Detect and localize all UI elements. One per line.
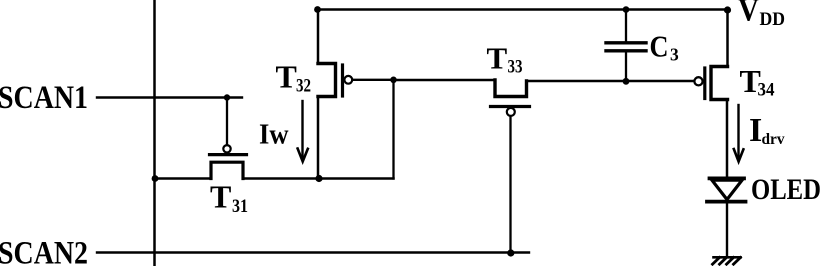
label T31 — [210, 179, 248, 218]
transistor T34 (p-type, vertical, gate bubble left) — [694, 67, 727, 100]
wire: bus to T31 source — [155, 177, 212, 179]
svg-text:3: 3 — [670, 45, 679, 65]
current arrow Idrv — [734, 105, 744, 162]
node VDD (supply dot) — [724, 6, 731, 13]
junction: T32 gate/drain tie node — [390, 77, 397, 84]
transistor T31 (p-type, gate bubble) — [210, 145, 247, 178]
wire: C3 top lead — [625, 10, 627, 42]
junction: bus / storage node row — [152, 175, 159, 182]
wire: T34 source down to OLED anode — [726, 100, 729, 177]
wire: T33 gate lead down to SCAN2 — [509, 116, 511, 252]
svg-text:I: I — [749, 112, 762, 149]
wire: T31 gate lead — [226, 98, 228, 146]
wire: node to T33 left terminal — [394, 79, 496, 81]
svg-text:34: 34 — [758, 80, 775, 101]
wire: C3 bottom lead — [625, 52, 627, 82]
junction: VDD rail left corner — [314, 6, 321, 13]
label VDD — [738, 0, 785, 30]
svg-text:31: 31 — [232, 196, 248, 217]
transistor T32 (p-type, vertical, gate bubble right) — [318, 64, 352, 97]
current arrow Iw — [298, 101, 308, 162]
wire: T31 drain to T32 source node — [243, 177, 394, 179]
svg-text:DD: DD — [760, 9, 786, 30]
wire: diode-connect vertical drop — [392, 80, 394, 179]
svg-text:32: 32 — [296, 76, 311, 97]
wire: T33 right terminal to T34 gate — [527, 80, 694, 82]
wire: SCAN2 row — [97, 251, 529, 253]
junction: T33 gate at SCAN2 — [507, 249, 514, 256]
wire: left vertical scan bus — [153, 0, 156, 266]
label C3 — [650, 29, 680, 65]
svg-text:OLED: OLED — [751, 173, 821, 206]
svg-text:Iw: Iw — [259, 120, 289, 151]
label T32 — [276, 59, 312, 97]
svg-text:T: T — [276, 59, 297, 95]
wire: T32 gate to diode-connect node — [353, 79, 394, 81]
wire: SCAN1 row — [97, 96, 242, 98]
svg-text:C: C — [650, 29, 669, 64]
svg-text:33: 33 — [508, 57, 523, 78]
junction: SCAN1 to T31 gate — [224, 94, 230, 100]
wire: T32 source down to storage row — [317, 97, 320, 179]
label T34 — [740, 63, 775, 101]
ground (hatched earth symbol) — [713, 257, 741, 264]
diode OLED — [707, 178, 746, 201]
svg-text:SCAN1: SCAN1 — [0, 80, 88, 116]
wire: VDD rail down to T34 drain — [726, 10, 729, 67]
junction: T32 source at storage row — [315, 175, 322, 182]
capacitor C3 — [606, 43, 646, 51]
svg-text:drv: drv — [762, 131, 785, 148]
svg-text:T: T — [210, 179, 231, 215]
wire: T32 drain up to VDD rail — [317, 10, 320, 64]
svg-text:V: V — [738, 0, 759, 29]
wire: VDD top rail — [317, 8, 728, 11]
junction: C3 bottom at gate line — [623, 78, 630, 85]
label Idrv — [749, 112, 785, 149]
svg-text:T: T — [487, 41, 508, 76]
svg-text:SCAN2: SCAN2 — [0, 236, 88, 266]
transistor T33 (p-type, bump down, gate bubble below) — [491, 80, 530, 116]
label T33 — [487, 41, 523, 78]
junction: C3 top plate at VDD rail — [623, 6, 630, 13]
wire: OLED cathode to ground — [726, 203, 728, 258]
